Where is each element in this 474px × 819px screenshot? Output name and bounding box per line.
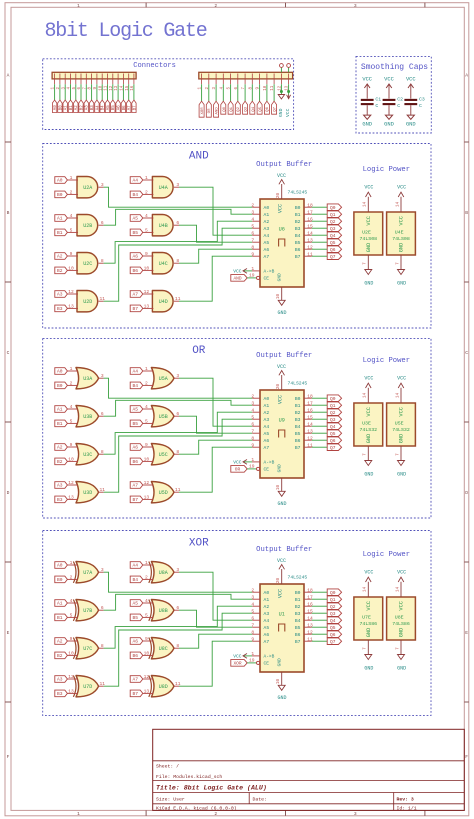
svg-text:VCC: VCC (397, 570, 406, 576)
svg-text:12: 12 (144, 674, 150, 680)
global label B2 (55, 267, 68, 274)
wire (215, 84, 217, 101)
pin 14 VCC of U8E (395, 582, 401, 597)
svg-text:7: 7 (395, 262, 400, 265)
wire (179, 641, 252, 686)
svg-text:Q7: Q7 (330, 639, 336, 645)
svg-text:A0: A0 (264, 396, 270, 402)
ground symbol (278, 95, 285, 118)
svg-text:B6: B6 (132, 459, 138, 465)
svg-text:OR: OR (235, 467, 241, 473)
svg-text:74LS86: 74LS86 (359, 621, 377, 627)
svg-text:9: 9 (70, 636, 73, 642)
svg-text:U7B: U7B (83, 608, 92, 614)
svg-text:C: C (397, 103, 400, 109)
XOR section box (43, 531, 431, 716)
wire (247, 277, 256, 279)
global label B0 (58, 100, 64, 113)
pin 13 B5 (304, 622, 313, 628)
wire (117, 84, 119, 100)
unconnected flag pin 12 (280, 64, 284, 68)
ground symbol below C3 (406, 105, 416, 127)
wire (179, 440, 252, 454)
svg-text:Q5: Q5 (330, 240, 336, 246)
pin 16 B2 (304, 407, 313, 413)
pin 2 A0 (251, 202, 260, 208)
connector J2 pin 6 (235, 74, 239, 90)
power unit U7E 74LS86 body (354, 597, 383, 640)
global label A0 (52, 100, 58, 113)
svg-text:7: 7 (363, 262, 368, 265)
svg-text:4: 4 (145, 598, 148, 604)
pin 9 A7 (251, 636, 260, 642)
global label A3 (55, 482, 68, 489)
svg-text:KiCad E.D.A. kicad (6.0.0-0): KiCad E.D.A. kicad (6.0.0-0) (156, 805, 237, 811)
connectors section label (133, 62, 176, 70)
svg-text:A3: A3 (264, 611, 270, 617)
global label Q5 (327, 430, 341, 437)
vcc symbol (left) (233, 460, 252, 466)
logic power label (363, 166, 410, 174)
pin 1 of U2A (67, 175, 78, 181)
svg-text:U4E: U4E (395, 229, 404, 235)
svg-text:C1: C1 (375, 97, 381, 103)
svg-text:B1: B1 (295, 212, 301, 218)
vcc symbol (397, 376, 406, 388)
svg-text:8: 8 (101, 258, 104, 264)
svg-text:12: 12 (68, 480, 74, 486)
or-gate U5B (151, 406, 174, 427)
svg-text:B4: B4 (132, 577, 138, 583)
pin 4 of U3B (67, 404, 78, 410)
pin 13 of U8D (143, 689, 154, 695)
svg-text:A0: A0 (264, 590, 270, 596)
global label A2 (55, 253, 68, 260)
wire (312, 432, 327, 434)
svg-text:14: 14 (395, 202, 400, 208)
svg-text:74LS245: 74LS245 (288, 190, 308, 196)
connectors section box (43, 59, 294, 130)
svg-text:GND: GND (399, 243, 405, 253)
pin 15 B3 (304, 414, 313, 420)
global label Q6 (327, 631, 341, 638)
pin 12 of U2D (67, 289, 78, 295)
svg-text:Q4: Q4 (330, 618, 336, 624)
connector J1 pin 13 (115, 74, 119, 91)
and-gate U4D (152, 291, 173, 312)
connector J1 pin 14 (121, 74, 125, 91)
svg-text:A6: A6 (132, 254, 138, 260)
pin 12 of U8D (143, 674, 154, 680)
ground symbol below C2 (384, 105, 394, 127)
XOR section label (189, 537, 209, 549)
svg-text:3: 3 (354, 811, 357, 817)
global label Q0 (327, 589, 341, 596)
svg-text:2: 2 (251, 587, 254, 593)
wire (179, 225, 252, 242)
smoothing caps section box (356, 56, 431, 133)
svg-text:A5: A5 (132, 407, 138, 413)
global label B7 (130, 690, 143, 697)
pin 7 GND of U7E (363, 640, 369, 655)
global label Q6 (327, 437, 341, 444)
global label B2 (55, 652, 68, 659)
svg-text:B4: B4 (295, 233, 301, 239)
global label A3 (55, 676, 68, 683)
svg-text:10: 10 (68, 651, 74, 657)
svg-text:14: 14 (121, 85, 125, 91)
pin 9 of U4C (143, 251, 154, 257)
svg-text:B7: B7 (133, 105, 137, 110)
global label Q0 (221, 101, 227, 114)
svg-text:A7: A7 (264, 639, 270, 645)
global label Q2 (327, 409, 341, 416)
svg-text:9: 9 (251, 442, 254, 448)
svg-text:9: 9 (70, 442, 73, 448)
svg-text:4: 4 (251, 601, 254, 607)
wire (237, 84, 239, 101)
pin 2 of U7A (67, 575, 78, 581)
svg-text:B1: B1 (295, 403, 301, 409)
pin 7 GND of U8E (395, 640, 401, 655)
svg-text:A7: A7 (132, 292, 138, 298)
global label Q4 (327, 232, 341, 239)
pin 10 GND (276, 287, 282, 300)
wire (107, 84, 109, 100)
svg-text:Q5: Q5 (259, 106, 263, 111)
svg-text:15: 15 (126, 85, 130, 91)
wire (59, 84, 61, 100)
svg-text:A7: A7 (264, 254, 270, 260)
svg-text:U4D: U4D (159, 299, 168, 305)
global label B1 (68, 100, 74, 113)
vcc symbol above C2 (384, 76, 394, 98)
pin 1 of U3A (67, 366, 78, 372)
svg-text:20: 20 (276, 384, 281, 390)
svg-text:10: 10 (276, 485, 281, 491)
svg-text:B0: B0 (57, 192, 63, 198)
wire (312, 255, 327, 257)
pin 8 output of U3C (99, 449, 104, 455)
wire (222, 84, 224, 101)
AND section label (189, 150, 209, 162)
pin 11 B7 (304, 636, 313, 642)
pin 4 A2 (251, 601, 260, 607)
svg-text:9: 9 (145, 442, 148, 448)
power unit U5E 74LS32 body (387, 403, 416, 446)
pin 5 of U5B (143, 419, 154, 425)
pin 8 output of U4C (174, 258, 179, 264)
svg-text:A3: A3 (57, 292, 63, 298)
pin 11 output of U8D (174, 681, 181, 687)
wire (247, 662, 256, 664)
buffer U9 74LS245 body (260, 390, 304, 478)
pin 19 CE (inverted) (249, 272, 260, 279)
xor-gate U7B (73, 600, 98, 621)
pin 2 of U4A (143, 190, 154, 196)
pin 6 A4 (251, 615, 260, 621)
global label B5 (130, 420, 143, 427)
svg-text:F: F (7, 754, 10, 760)
wire (80, 84, 82, 100)
connector J1 body (52, 72, 136, 79)
global label Q6 (327, 246, 341, 253)
connector J2 pin 10 (264, 74, 268, 91)
svg-text:Output Buffer: Output Buffer (256, 352, 312, 360)
wire (312, 206, 327, 208)
title block (153, 729, 465, 811)
svg-text:B2: B2 (295, 219, 301, 225)
vcc symbol (285, 95, 291, 118)
svg-text:C: C (7, 350, 10, 356)
global label B4 (130, 576, 143, 583)
svg-text:A4: A4 (132, 563, 138, 569)
pin 2 of U3A (67, 381, 78, 387)
global label Q5 (327, 624, 341, 631)
pin 1 A->B (251, 266, 260, 272)
pin 6 output of U8B (174, 605, 179, 611)
wire (179, 447, 252, 492)
ground symbol (397, 461, 406, 478)
wire (312, 619, 327, 621)
svg-text:B1: B1 (57, 230, 63, 236)
svg-text:A7: A7 (132, 677, 138, 683)
and-gate U4A (152, 177, 173, 198)
pin 10 GND (276, 478, 282, 491)
svg-text:B7: B7 (295, 254, 301, 260)
pin 5 A3 (251, 608, 260, 614)
and-gate U4B (152, 215, 173, 236)
pin 3 output of U8A (174, 567, 179, 573)
svg-text:19: 19 (249, 657, 255, 663)
svg-text:C: C (465, 350, 468, 356)
svg-text:7: 7 (395, 453, 400, 456)
pin 2 A0 (251, 587, 260, 593)
connector J1 pin 6 (78, 74, 82, 90)
pin 19 CE (inverted) (249, 463, 260, 470)
svg-text:B6: B6 (295, 438, 301, 444)
svg-text:8: 8 (251, 629, 254, 635)
svg-text:Q3: Q3 (245, 106, 249, 111)
pin 14 VCC of U5E (395, 388, 401, 403)
svg-text:1: 1 (145, 175, 148, 181)
pin 5 of U3B (67, 419, 78, 425)
svg-text:B7: B7 (132, 497, 138, 503)
svg-text:U4A: U4A (159, 185, 168, 191)
power unit U2E 74LS08 body (354, 212, 383, 255)
xor-gate U8A (149, 562, 174, 583)
wire (85, 84, 87, 100)
svg-text:U2C: U2C (83, 261, 92, 267)
output buffer label (256, 546, 312, 554)
svg-text:GND: GND (276, 658, 282, 666)
wire (104, 187, 253, 207)
svg-text:B5: B5 (295, 625, 301, 631)
global label Q7 (327, 253, 341, 260)
svg-text:6: 6 (101, 605, 104, 611)
svg-text:Q3: Q3 (330, 226, 336, 232)
svg-text:GND: GND (278, 108, 284, 117)
global label Q7 (327, 638, 341, 645)
svg-text:Q1: Q1 (230, 106, 234, 111)
wire (112, 84, 114, 100)
svg-text:5: 5 (145, 228, 148, 234)
svg-text:A->B: A->B (264, 654, 275, 660)
ground symbol (364, 655, 373, 672)
svg-text:3: 3 (101, 373, 104, 379)
svg-text:Date:: Date: (253, 797, 267, 803)
svg-text:A6: A6 (264, 632, 270, 638)
pin 10 of U2C (67, 266, 78, 272)
wire (64, 84, 66, 100)
wire (312, 248, 327, 250)
svg-text:GND: GND (397, 280, 406, 286)
svg-text:5: 5 (145, 613, 148, 619)
svg-text:A7: A7 (132, 483, 138, 489)
global label Q7 (327, 444, 341, 451)
smoothing caps section label (361, 63, 428, 72)
svg-text:Output Buffer: Output Buffer (256, 546, 312, 554)
pin 20 VCC (276, 375, 282, 390)
svg-text:VCC: VCC (366, 216, 372, 226)
svg-text:8: 8 (176, 643, 179, 649)
connector J1 pin 8 (89, 74, 93, 90)
wire (104, 412, 253, 454)
svg-text:13: 13 (68, 495, 74, 501)
pin 14 B4 (304, 615, 313, 621)
svg-text:12: 12 (144, 480, 150, 486)
OR section label (192, 345, 206, 357)
connector J1 pin 16 (131, 74, 135, 91)
vcc symbol above C1 (362, 76, 372, 98)
svg-text:E: E (465, 630, 468, 636)
connector J2 pin 5 (228, 74, 232, 90)
global label B2 (55, 458, 68, 465)
svg-text:7: 7 (251, 622, 254, 628)
pin 8 output of U2C (99, 258, 104, 264)
global label AND (231, 275, 247, 282)
svg-text:5: 5 (251, 223, 254, 229)
svg-text:13: 13 (68, 304, 74, 310)
global label B6 (121, 100, 127, 113)
svg-text:Q0: Q0 (330, 396, 336, 402)
svg-text:A0: A0 (57, 563, 63, 569)
global label B0 (55, 382, 68, 389)
capacitor C3 (404, 97, 424, 109)
svg-text:CE: CE (264, 467, 270, 473)
svg-text:14: 14 (363, 587, 368, 593)
svg-text:1: 1 (70, 175, 73, 181)
pin 11 output of U5D (174, 487, 181, 493)
global label B7 (130, 305, 143, 312)
svg-text:VCC: VCC (397, 376, 406, 382)
wire (104, 606, 253, 648)
svg-text:14: 14 (363, 202, 368, 208)
svg-text:4: 4 (70, 598, 73, 604)
global label B1 (55, 614, 68, 621)
global label A6 (130, 444, 143, 451)
svg-text:B6: B6 (295, 247, 301, 253)
global label B1 (55, 420, 68, 427)
wire (208, 84, 210, 101)
svg-text:B1: B1 (57, 421, 63, 427)
svg-text:10: 10 (68, 266, 74, 272)
svg-text:C: C (419, 103, 422, 109)
svg-text:6: 6 (176, 605, 179, 611)
svg-text:4: 4 (70, 404, 73, 410)
logic power label (363, 357, 410, 365)
wire (179, 416, 252, 433)
pin 9 of U8C (143, 636, 154, 642)
svg-text:XOR: XOR (233, 661, 241, 667)
pin 14 B4 (304, 230, 313, 236)
svg-text:A3: A3 (264, 417, 270, 423)
svg-text:A1: A1 (264, 597, 270, 603)
vcc symbol (364, 570, 373, 582)
connector J1 pin 11 (105, 74, 109, 91)
svg-text:Q6: Q6 (330, 632, 336, 638)
global label B4 (130, 382, 143, 389)
connector J1 pin 10 (99, 74, 103, 91)
wire (128, 84, 130, 100)
global label A0 (55, 562, 68, 569)
svg-text:12: 12 (68, 289, 74, 295)
svg-text:U1: U1 (279, 612, 285, 618)
global label Q1 (327, 596, 341, 603)
pin 2 of U5A (143, 381, 154, 387)
pin 15 B3 (304, 223, 313, 229)
and-gate U2B (77, 215, 98, 236)
svg-text:B3: B3 (295, 226, 301, 232)
svg-text:9: 9 (145, 636, 148, 642)
global label Q2 (235, 101, 241, 114)
vcc symbol (277, 364, 286, 375)
pin 18 B0 (304, 202, 313, 208)
svg-text:Q7: Q7 (274, 106, 278, 111)
svg-text:A1: A1 (264, 403, 270, 409)
svg-text:74LS08: 74LS08 (359, 236, 377, 242)
svg-text:B5: B5 (295, 431, 301, 437)
svg-text:Sheet: /: Sheet: / (156, 764, 179, 770)
svg-text:F: F (465, 754, 468, 760)
global label B3 (55, 690, 68, 697)
wire (312, 612, 327, 614)
wire (247, 468, 256, 470)
svg-text:Q0: Q0 (330, 590, 336, 596)
svg-text:2: 2 (145, 190, 148, 196)
svg-text:3: 3 (101, 182, 104, 188)
pin 7 GND of U4E (395, 255, 401, 270)
svg-text:VCC: VCC (364, 185, 373, 191)
svg-text:Connectors: Connectors (133, 62, 176, 70)
svg-text:VCC: VCC (277, 558, 286, 564)
pin 13 of U7D (67, 689, 78, 695)
global label A5 (130, 600, 143, 607)
svg-text:4: 4 (70, 213, 73, 219)
svg-text:B1: B1 (57, 615, 63, 621)
global label XOR (199, 101, 205, 117)
svg-text:D: D (7, 490, 10, 496)
pin 8 output of U5C (174, 449, 179, 455)
global label A7 (130, 676, 143, 683)
pin 8 output of U8C (174, 643, 179, 649)
svg-text:4: 4 (251, 216, 254, 222)
global label B3 (89, 100, 95, 113)
svg-text:A5: A5 (264, 625, 270, 631)
svg-text:GND: GND (406, 122, 416, 128)
svg-text:VCC: VCC (278, 589, 284, 598)
svg-text:B: B (465, 210, 468, 216)
